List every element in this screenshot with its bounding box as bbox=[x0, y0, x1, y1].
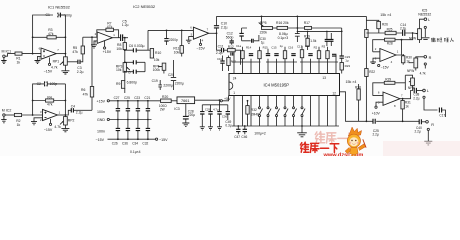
capacitor C28 220u bbox=[182, 104, 195, 127]
svg-text:1k: 1k bbox=[405, 104, 409, 108]
capacitor C2 100p bbox=[37, 81, 58, 86]
wire U1b output bbox=[58, 114, 66, 116]
pins above IC4 and component row bbox=[232, 62, 338, 74]
op-amp U1a bbox=[39, 46, 60, 60]
svg-text:R12: R12 bbox=[228, 45, 234, 49]
capacitor C10 2.2u on riser bbox=[214, 16, 228, 33]
svg-text:C34: C34 bbox=[132, 141, 138, 145]
svg-text:C19: C19 bbox=[152, 79, 158, 83]
electrolytic C30b bbox=[208, 105, 219, 130]
node junction A1 bbox=[32, 53, 34, 55]
svg-text:R26: R26 bbox=[382, 22, 388, 26]
label values 6.8k 0.1u x3 bbox=[278, 32, 289, 40]
capacitor 2200p at IC2b input bbox=[164, 30, 178, 46]
svg-text:C1b: C1b bbox=[217, 57, 223, 61]
wire riser from stage B bbox=[91, 37, 93, 110]
node dots R4 row bbox=[32, 100, 67, 102]
wire output B to C4 bbox=[65, 110, 71, 115]
capacitor C7 row with G bbox=[124, 70, 145, 75]
svg-text:R15: R15 bbox=[263, 46, 269, 50]
svg-text:R28: R28 bbox=[387, 42, 393, 46]
capacitor C47 electrolytic bbox=[234, 126, 240, 139]
wire C4 to riser bbox=[73, 109, 92, 111]
svg-text:100n: 100n bbox=[97, 130, 105, 134]
power -15V at U1a bbox=[44, 58, 53, 74]
svg-text:100p: 100p bbox=[50, 82, 58, 86]
wire upper output chain bbox=[366, 32, 412, 34]
wire cluster rail y31 bbox=[297, 30, 342, 32]
svg-text:C1: C1 bbox=[46, 13, 50, 17]
resistor R13 vertical bbox=[227, 56, 237, 72]
ground at op-amp U1a plus input bbox=[35, 56, 42, 63]
wire feedback loop stage A bbox=[33, 15, 66, 54]
capacitor 1u horizontal bbox=[242, 35, 266, 44]
op-amp U1b bbox=[40, 109, 61, 121]
wire riser down to C11 row bbox=[217, 33, 222, 50]
capacitor C8 row bbox=[124, 60, 145, 71]
resistor R26 vertical bbox=[377, 21, 388, 33]
power +15V at U2a bbox=[103, 41, 112, 54]
power terminal -15V right bbox=[156, 138, 169, 142]
wire electrolytic top bus bbox=[202, 104, 228, 106]
svg-text:RP2: RP2 bbox=[68, 119, 75, 123]
electrolytic C31 bbox=[217, 100, 227, 130]
svg-text:R: R bbox=[431, 123, 434, 127]
ground under RP2 bbox=[61, 129, 69, 132]
svg-text:−15V: −15V bbox=[96, 138, 105, 142]
svg-text:2M48: 2M48 bbox=[251, 112, 259, 116]
svg-text:1.2µ: 1.2µ bbox=[122, 23, 129, 27]
svg-text:C15: C15 bbox=[271, 46, 277, 50]
svg-text:1.5k: 1.5k bbox=[310, 39, 316, 43]
svg-text:L: L bbox=[428, 18, 430, 22]
wire feedback loop U5b bbox=[373, 40, 402, 55]
power +5V node bbox=[219, 99, 221, 101]
svg-text:2.2µ: 2.2µ bbox=[415, 129, 421, 133]
resistor R19 1.5k bbox=[304, 31, 317, 50]
svg-text:R9: R9 bbox=[116, 82, 120, 86]
svg-text:1k: 1k bbox=[17, 60, 21, 64]
ground at U5b plus input bbox=[370, 58, 380, 63]
wire +5V to IC4 bbox=[220, 96, 231, 102]
svg-text:M IC1: M IC1 bbox=[2, 50, 12, 54]
svg-text:C36: C36 bbox=[222, 115, 228, 119]
resistor R17 bbox=[304, 21, 342, 29]
svg-text:100k: 100k bbox=[153, 68, 161, 72]
svg-text:C27: C27 bbox=[114, 96, 120, 100]
capacitor C1b vertical bbox=[217, 56, 225, 72]
wire rail drop right bbox=[365, 16, 367, 121]
svg-text:4.7k: 4.7k bbox=[54, 125, 61, 129]
svg-text:4.7k: 4.7k bbox=[51, 66, 58, 70]
resistor R31 bbox=[401, 99, 411, 122]
label C49 0.3u bbox=[225, 120, 231, 128]
resistor R2 1k bbox=[14, 113, 21, 126]
resistor R20 100ohm 2W bbox=[159, 95, 177, 112]
svg-text:R3: R3 bbox=[322, 45, 326, 49]
svg-text:100n: 100n bbox=[97, 110, 105, 114]
electrolytic C33 bbox=[226, 105, 230, 120]
potentiometer RP1 4.7k bbox=[51, 54, 67, 71]
capacitor C12 560p bbox=[226, 32, 234, 45]
svg-text:C11: C11 bbox=[218, 45, 224, 49]
svg-text:220k: 220k bbox=[260, 30, 268, 34]
svg-text:4.7k: 4.7k bbox=[420, 72, 426, 76]
resistor R11 10k vertical bbox=[173, 30, 183, 56]
resistor R3 47k bbox=[47, 28, 56, 39]
svg-text:47k: 47k bbox=[48, 32, 54, 36]
resistor R30 1k bbox=[402, 54, 413, 65]
resistor in drop upper bbox=[365, 30, 368, 38]
svg-text:C2: C2 bbox=[37, 82, 41, 86]
wire drop to IC pin 13 bbox=[341, 28, 343, 74]
jack L lower bbox=[423, 89, 438, 110]
resistor R7 47k bbox=[106, 21, 114, 31]
svg-text:R2: R2 bbox=[314, 46, 318, 50]
svg-text:2200p: 2200p bbox=[169, 38, 178, 42]
ground at MIC1 bbox=[1, 57, 6, 63]
svg-text:220µ: 220µ bbox=[188, 113, 195, 117]
resistor R5 47k vertical bbox=[72, 37, 84, 54]
pins below IC4 bbox=[234, 96, 336, 127]
capacitor C20 2200u vertical bbox=[168, 60, 184, 90]
svg-text:+10V: +10V bbox=[372, 111, 381, 115]
svg-text:0.1µ×3: 0.1µ×3 bbox=[278, 36, 289, 40]
svg-text:IC2 NE5532: IC2 NE5532 bbox=[133, 4, 156, 9]
capacitor C17 bbox=[439, 108, 445, 118]
wire branch to R26 bbox=[366, 20, 378, 21]
capacitor C19 2200p bbox=[152, 79, 173, 90]
ground at U2b plus input bbox=[186, 37, 194, 44]
wire loop to pot junction bbox=[402, 33, 413, 40]
capacitor C23a 1u in drop bbox=[340, 55, 351, 63]
resistor R8 10k bbox=[116, 43, 126, 51]
svg-text:C4: C4 bbox=[71, 104, 75, 108]
capacitor C4 2.2u bbox=[71, 104, 83, 114]
power terminal GND bbox=[97, 118, 152, 122]
node MIC2 input terminal bbox=[2, 108, 12, 116]
capacitor C5 1.2u bbox=[121, 19, 129, 41]
svg-text:0.1µ×4: 0.1µ×4 bbox=[130, 150, 141, 154]
wire R1 to op-amp bbox=[22, 53, 41, 55]
svg-text:2200µ: 2200µ bbox=[163, 83, 173, 87]
svg-text:10k: 10k bbox=[174, 50, 180, 54]
node R11 junction bbox=[181, 30, 183, 32]
svg-text:R10: R10 bbox=[155, 51, 161, 55]
node rail dot 1 bbox=[261, 16, 263, 18]
node drop dot bbox=[341, 31, 343, 33]
svg-text:C25: C25 bbox=[124, 96, 130, 100]
svg-text:GND: GND bbox=[97, 118, 105, 122]
svg-text:6.800p: 6.800p bbox=[127, 80, 137, 84]
svg-text:7661: 7661 bbox=[181, 99, 189, 103]
svg-text:−15V: −15V bbox=[44, 70, 53, 74]
decoupling cap C24 bbox=[122, 120, 130, 146]
svg-text:−15V: −15V bbox=[196, 47, 205, 51]
svg-text:R23: R23 bbox=[345, 64, 351, 68]
svg-text:RP1: RP1 bbox=[53, 59, 60, 63]
svg-text:1k: 1k bbox=[17, 123, 21, 127]
svg-text:R: R bbox=[429, 56, 432, 60]
wire feedback loop U5a bbox=[373, 83, 406, 99]
potentiometer NFW right mid bbox=[407, 57, 426, 76]
svg-text:1: 1 bbox=[233, 91, 235, 95]
power -15V at U1b bbox=[44, 119, 53, 132]
svg-text:R29: R29 bbox=[385, 78, 391, 82]
svg-text:NE5532: NE5532 bbox=[418, 12, 431, 16]
svg-text:4.7µ: 4.7µ bbox=[213, 108, 219, 112]
svg-text:15k ×4: 15k ×4 bbox=[346, 80, 357, 84]
wire C3 to R5 bbox=[80, 54, 83, 62]
wire R2 to op-amp B bbox=[22, 114, 42, 116]
wire IC2b input bbox=[148, 30, 193, 50]
ground bus below IC4 bbox=[232, 125, 339, 127]
capacitor C38 2.2u bbox=[413, 88, 423, 100]
svg-text:C32: C32 bbox=[142, 141, 148, 145]
svg-text:R17: R17 bbox=[304, 21, 310, 25]
svg-text:10k: 10k bbox=[154, 58, 160, 62]
potentiometer NFW lower bbox=[405, 75, 415, 90]
resistor R32 2M bbox=[246, 100, 259, 126]
decoupling cap C32 bbox=[142, 120, 150, 146]
decoupling cap C34 bbox=[132, 120, 140, 146]
resistor R4 47k bbox=[46, 95, 54, 106]
decoupling cap C21 bbox=[144, 96, 150, 120]
svg-text:M IC2: M IC2 bbox=[2, 108, 12, 112]
svg-text:10k: 10k bbox=[116, 47, 122, 51]
svg-text:C6 0.033µ: C6 0.033µ bbox=[129, 44, 145, 48]
svg-text:+15V: +15V bbox=[103, 50, 112, 54]
svg-text:C17: C17 bbox=[439, 113, 445, 117]
capacitor pair C18 bbox=[325, 31, 334, 46]
wire U1a output bbox=[56, 53, 65, 55]
svg-text:R19: R19 bbox=[304, 34, 310, 38]
node bus dots bbox=[237, 125, 302, 127]
ground symbol main bbox=[297, 126, 307, 137]
decoupling cap C25 bbox=[124, 96, 130, 120]
node bottom line dots bbox=[366, 120, 404, 122]
svg-text:NFW: NFW bbox=[407, 69, 414, 73]
svg-text:1µ: 1µ bbox=[280, 44, 284, 48]
svg-text:10k: 10k bbox=[116, 68, 122, 72]
resistor R16 20k bbox=[273, 21, 305, 29]
capacitor C1 100p bbox=[46, 13, 72, 18]
svg-text:C23: C23 bbox=[134, 96, 140, 100]
power terminal -15V left bbox=[96, 138, 156, 142]
node output junction B bbox=[65, 114, 67, 116]
svg-text:+15V: +15V bbox=[97, 99, 106, 103]
svg-text:RP5: RP5 bbox=[260, 21, 267, 25]
svg-text:13: 13 bbox=[322, 76, 326, 80]
power -15V at U2b bbox=[196, 39, 205, 51]
capacitor C46 electrolytic bbox=[241, 126, 247, 139]
IC3 7661 bbox=[174, 97, 219, 111]
component row above IC4 bbox=[234, 44, 336, 62]
svg-text:1µ: 1µ bbox=[345, 58, 349, 62]
svg-text:2.2µ: 2.2µ bbox=[373, 133, 379, 137]
svg-text:2W: 2W bbox=[160, 108, 165, 112]
svg-text:2200µ: 2200µ bbox=[175, 82, 184, 86]
switches S1-S6 below IC4 bbox=[259, 96, 306, 127]
svg-text:R4: R4 bbox=[47, 95, 51, 99]
svg-text:C36: C36 bbox=[122, 141, 128, 145]
resistor R9 bbox=[116, 80, 137, 88]
resistor R23 in drop bbox=[340, 63, 350, 71]
svg-text:R14: R14 bbox=[246, 46, 252, 50]
wire bottom signal line bbox=[340, 92, 420, 122]
decoupling cap C26 bbox=[112, 120, 120, 146]
potentiometer RP2 4.7k bbox=[54, 115, 74, 129]
ground at U2a plus input bbox=[91, 41, 97, 48]
svg-text:−15V: −15V bbox=[159, 138, 168, 142]
svg-text:10k: 10k bbox=[305, 44, 310, 48]
svg-text:IC4 M50195P: IC4 M50195P bbox=[264, 83, 290, 88]
capacitor C25b 2.2u bbox=[373, 119, 379, 137]
svg-text:100µ×2: 100µ×2 bbox=[254, 131, 266, 135]
decoupling cap C27 bbox=[114, 96, 121, 120]
svg-text:−15V: −15V bbox=[44, 128, 53, 132]
svg-text:560p: 560p bbox=[226, 35, 234, 39]
svg-text:2.2µ: 2.2µ bbox=[413, 96, 419, 100]
svg-text:2.2µ: 2.2µ bbox=[400, 27, 406, 31]
jack R lower bbox=[426, 121, 435, 142]
svg-text:47k: 47k bbox=[72, 50, 78, 54]
ground under RP1 bbox=[61, 71, 69, 74]
node loop dot U5b bbox=[401, 39, 403, 41]
op-amp U2a mixer bbox=[95, 32, 116, 45]
ground at op-amp U1b plus input bbox=[31, 118, 43, 125]
resistor R25 bbox=[385, 28, 396, 35]
resistor R29 bbox=[384, 78, 395, 85]
IC4 M50195P body bbox=[229, 74, 340, 96]
svg-text:C26: C26 bbox=[112, 141, 118, 145]
node pot junction bbox=[412, 32, 414, 34]
watermark ghost text bbox=[315, 131, 358, 143]
svg-text:C1a: C1a bbox=[236, 44, 242, 48]
svg-text:C46: C46 bbox=[241, 135, 247, 139]
svg-text:R38: R38 bbox=[355, 85, 361, 89]
svg-text:C47: C47 bbox=[234, 135, 240, 139]
ground at MIC2 bbox=[1, 116, 6, 123]
svg-text:1µ: 1µ bbox=[261, 40, 265, 44]
resistor R6 47k vertical bbox=[81, 87, 94, 98]
svg-text:47k: 47k bbox=[107, 25, 113, 29]
svg-text:IC1 NE5532: IC1 NE5532 bbox=[48, 5, 71, 10]
svg-text:R25: R25 bbox=[387, 28, 393, 32]
node EQ column junction bbox=[124, 37, 126, 39]
wire feedback loop stage B bbox=[33, 84, 66, 115]
svg-text:R32: R32 bbox=[251, 108, 257, 112]
node dots R3 row bbox=[32, 36, 67, 38]
node output junction U5a bbox=[402, 98, 404, 100]
wire EQ column bbox=[124, 38, 126, 93]
wire MIC2 to R2 bbox=[5, 114, 14, 116]
watermark red text bbox=[300, 142, 338, 152]
capacitor C40 2.2u bbox=[415, 119, 426, 133]
svg-text:C21: C21 bbox=[144, 96, 150, 100]
svg-text:24: 24 bbox=[233, 76, 237, 80]
jack L upper bbox=[424, 18, 430, 37]
label IC5 NE5532 bbox=[418, 8, 431, 16]
svg-text:G: G bbox=[128, 71, 131, 75]
ground at U5a plus input bbox=[372, 102, 383, 115]
bar series input upper bbox=[422, 38, 454, 42]
wire U2b output to rail riser bbox=[209, 32, 217, 34]
jack R upper bbox=[419, 56, 431, 69]
wire mix node to IC2a bbox=[83, 36, 97, 38]
node junction B1 bbox=[32, 114, 34, 116]
node rail dot 2 with drop bbox=[297, 16, 299, 29]
node rail riser junction bbox=[216, 32, 218, 34]
potentiometer RP4 100k bbox=[153, 63, 166, 73]
decoupling cap C23 bbox=[134, 96, 140, 120]
capacitor C6 0.033u bbox=[124, 44, 152, 52]
potentiometer RP5 220k bbox=[259, 16, 273, 34]
electrolytic C29 bbox=[200, 105, 211, 130]
node MIC1 input terminal bbox=[2, 50, 12, 58]
wire top rail bbox=[217, 15, 367, 17]
svg-text:47k: 47k bbox=[83, 93, 89, 97]
capacitor C3 2.2u bbox=[77, 60, 84, 74]
node output junction A bbox=[65, 53, 67, 55]
svg-text:0.3µ: 0.3µ bbox=[225, 124, 231, 128]
watermark mascot bbox=[345, 127, 366, 158]
potentiometer RP3 10k bbox=[116, 63, 130, 73]
watermark pink tint bbox=[383, 141, 460, 156]
svg-text:C16: C16 bbox=[288, 46, 294, 50]
wire MIC1 to R1 bbox=[5, 54, 15, 57]
svg-text:IC3: IC3 bbox=[174, 107, 179, 111]
svg-text:C17: C17 bbox=[297, 45, 303, 49]
resistor R27 vertical bbox=[355, 84, 361, 121]
capacitor C13a below RP5 bbox=[239, 28, 247, 41]
op-amp U2b bbox=[190, 26, 209, 43]
svg-text:+5V: +5V bbox=[224, 97, 231, 101]
svg-text:15k ×4: 15k ×4 bbox=[380, 13, 391, 17]
resistor R10 10k vertical bbox=[150, 49, 161, 63]
resistor R28 bbox=[385, 38, 396, 45]
capacitor C11 2.2u bbox=[216, 45, 228, 55]
svg-text:2.2µ: 2.2µ bbox=[76, 111, 83, 115]
svg-text:L: L bbox=[427, 89, 429, 93]
potentiometer NFW upper bbox=[409, 19, 424, 43]
wire feedback loop U2a bbox=[97, 30, 120, 38]
svg-text:C29: C29 bbox=[205, 108, 211, 112]
power -15V at U5b bbox=[378, 64, 390, 69]
op-amp U5a bbox=[378, 91, 403, 109]
svg-text:−15V: −15V bbox=[381, 65, 390, 69]
ground at jack R bbox=[424, 141, 432, 145]
resistor R12 bbox=[227, 45, 240, 65]
op-amp U5b bbox=[375, 47, 399, 64]
svg-text:2.2µ: 2.2µ bbox=[77, 70, 84, 74]
svg-text:R20: R20 bbox=[162, 95, 168, 99]
power terminal +15V bbox=[97, 99, 161, 103]
svg-text:R22: R22 bbox=[369, 70, 375, 74]
svg-text:2.2µ: 2.2µ bbox=[216, 51, 223, 55]
node cluster dots bbox=[307, 31, 328, 33]
svg-text:47k: 47k bbox=[47, 103, 53, 107]
resistor R22 in drop bbox=[365, 69, 376, 77]
svg-text:R6: R6 bbox=[81, 88, 85, 92]
capacitor C13b below junction 2 bbox=[295, 28, 300, 42]
svg-text:100p: 100p bbox=[64, 13, 72, 17]
svg-text:R16 20k: R16 20k bbox=[276, 21, 289, 25]
svg-text:12: 12 bbox=[332, 91, 336, 95]
capacitor C13 small bbox=[231, 52, 233, 55]
capacitor C14 2.2u bbox=[400, 23, 406, 36]
resistor R1 bbox=[15, 52, 22, 64]
